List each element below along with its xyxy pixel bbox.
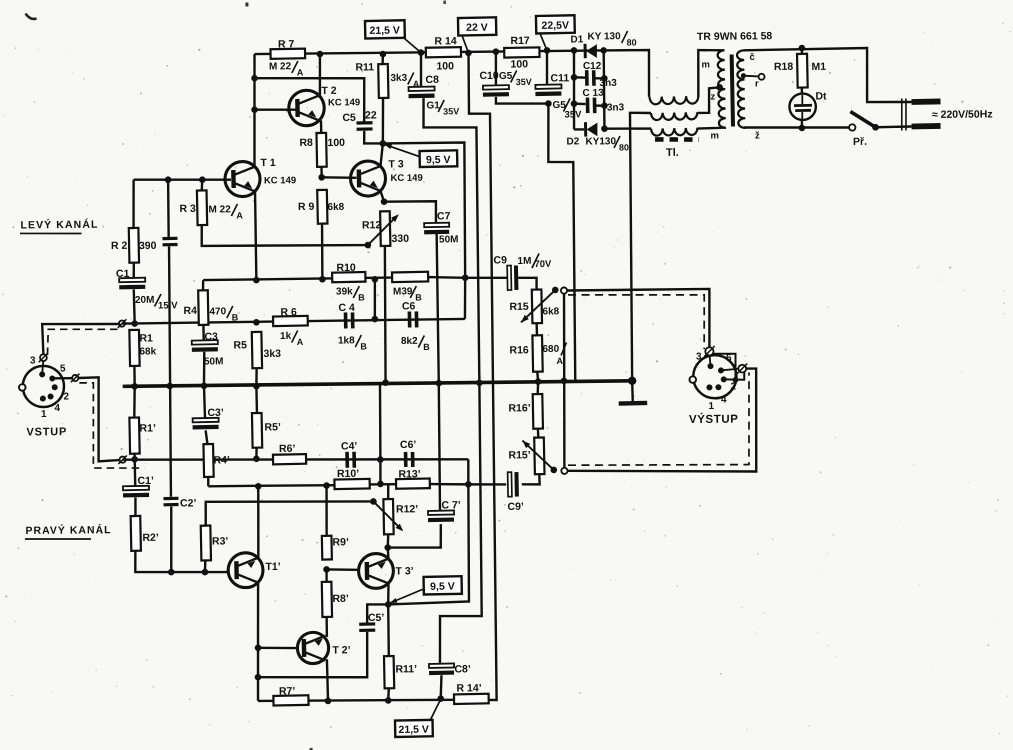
resistor R7 [270,49,305,59]
pointer 9,5V box to node [384,144,419,157]
junction R5 on bus [253,383,260,390]
svg-text:8k2: 8k2 [401,336,418,347]
wire R2 column from base line [132,180,135,228]
wire R12' top to R13' line [387,484,390,499]
trimmer R15' (lower) [534,437,544,474]
svg-text:R8’: R8’ [332,593,349,605]
resistor R11 3k3/A [381,54,384,64]
svg-text:R10’: R10’ [337,468,359,480]
wire mains top [744,48,912,104]
resistor R9' [322,536,332,560]
svg-text:C12: C12 [583,61,602,72]
wire C3 to bus [202,352,205,386]
svg-text:KC 149: KC 149 [264,175,296,186]
transformer secondary winding (right) [737,50,746,128]
svg-text:4: 4 [721,394,727,405]
svg-text:4: 4 [54,403,60,414]
capacitor C6 8k2/B [408,311,412,327]
resistor R16' (lower) [533,394,543,429]
svg-text:M39: M39 [393,286,413,297]
capacitor C2 (base bypass) [167,180,170,237]
svg-text:C4’: C4’ [341,440,358,452]
junction R12 wiper / feedback [365,242,372,249]
svg-text:VSTUP: VSTUP [26,426,67,438]
capacitor C3' (lower) [193,418,219,422]
dashed shield VSTUP upper [47,329,119,355]
wire VSTUP pin5 to right input node [55,377,72,380]
wire bus to R16' [536,382,539,395]
junction shield link on bus [561,378,568,385]
svg-text:R12: R12 [362,219,382,231]
choke Tl. winding row 3 [651,128,698,136]
resistor R3' [201,526,211,561]
wire bus to C3' [204,386,205,419]
svg-text:C 13: C 13 [582,88,604,99]
wire T2' base [258,646,297,649]
wire R4 top / T1 emitter / R10 line [203,276,507,280]
junction C13 left [571,100,578,107]
svg-text:G5: G5 [499,71,513,82]
junction rail/C10 [493,48,500,55]
svg-text:R10: R10 [336,262,356,274]
wire C6 line corner up to C9 line [463,278,466,319]
junction R8'/R9'/T3' base [323,566,330,573]
svg-text:15 V: 15 V [158,300,178,311]
svg-text:R1’: R1’ [139,422,156,434]
trimmer R15 6k8 [532,289,542,323]
svg-text:9,5 V: 9,5 V [426,154,451,166]
wire R9' top to R10' line [325,486,328,537]
capacitor C11 G5/35V [535,84,561,88]
svg-text:A: A [413,79,420,89]
wire R3 bottom feedback line to R12 wiper [202,224,368,247]
svg-text:R5: R5 [233,339,247,351]
resistor R5' [252,413,262,448]
wire R2' to T1' base line [135,550,227,573]
wire output left channel to VYSTUP pin3 [567,289,710,349]
input node terminal (left ch) [119,320,125,326]
resistor R18 M1 [801,48,803,54]
voltage box 22V [458,17,496,35]
junction R15 wiper [552,287,559,294]
capacitor C1 20M/15V [119,278,145,282]
trimmer R12' (lower) [383,499,393,534]
resistor R7' (bottom) [273,695,308,705]
svg-text:ž: ž [755,130,760,141]
svg-text:A: A [297,337,304,347]
svg-text:A: A [236,210,243,220]
svg-text:3k3: 3k3 [390,73,407,84]
svg-text:C5: C5 [342,112,356,124]
svg-text:R 7: R 7 [278,38,295,50]
junction rail/C8/R14 left (21,5V point) [418,49,425,56]
wire C5 line from T1 collector column [255,77,365,122]
capacitor C3 50M [192,340,218,344]
junction rail 22V point [465,50,472,57]
VYSTUP pin 5 [718,367,724,373]
svg-text:C9: C9 [493,254,507,266]
VYSTUP pin 4 [715,384,721,390]
wire T1 collector riser [253,54,255,166]
svg-text:T 2: T 2 [321,85,336,97]
wire T1' emitter down to T2' base [257,582,258,647]
terminal R15' wiper ring [561,468,567,474]
svg-text:z: z [710,91,715,102]
svg-text:č: č [749,52,754,63]
voltage box 9,5V upper [420,150,458,167]
svg-text:KY 130: KY 130 [587,31,621,42]
VSTUP pin 5 [49,375,55,381]
terminal pin5 line [72,375,78,381]
svg-text:r: r [755,78,759,89]
wire choke row1 right up to transformer [698,50,725,97]
wire 22V node jog to R14' column [468,53,496,700]
svg-text:470: 470 [209,306,226,317]
junction C7 column on bus [435,380,442,387]
wire output right channel to VYSTUP pin2 [567,368,758,473]
junction column on R13' line [377,481,384,488]
wire C12 right stub [594,77,604,80]
capacitor C4 1k8/B [344,312,348,328]
svg-text:Př.: Př. [853,136,867,148]
junction output node lower (R13'/C9') [465,481,472,488]
svg-text:TR 9WN 661 58: TR 9WN 661 58 [697,30,773,43]
resistor R6 1k/A [273,316,308,326]
wire R13' to output node [430,484,469,485]
junction base line / C2 column [165,176,172,183]
svg-text:KY130: KY130 [585,136,616,147]
wire R4 to C3 [202,325,205,341]
resistor R9 6k8 [317,190,327,224]
wire bus to R1' [134,386,135,417]
svg-text:C1: C1 [116,268,130,280]
wire T2 collector riser [318,54,321,96]
wire C3' to R4' [206,430,208,444]
capacitor C12 3n3 [585,70,589,86]
wire C7' bottom to R12' junction [388,524,442,548]
svg-text:Tl.: Tl. [666,147,679,159]
junction D2 anode / choke row3 [601,125,608,132]
wire T2 emitter to R8 [320,120,323,133]
svg-text:C10: C10 [479,70,499,82]
svg-text:6k8: 6k8 [542,306,559,317]
VSTUP pin 3 [39,371,45,377]
wire D1 to choke row 1 [604,50,650,97]
dashed shield left channel [568,294,705,351]
svg-text:C9’: C9’ [507,501,524,513]
junction T2' base node [255,644,262,651]
transformer core bars [730,54,735,126]
svg-text:1M: 1M [517,256,531,267]
svg-text:2: 2 [63,391,69,402]
svg-text:R7’: R7’ [279,685,296,697]
svg-text:100: 100 [436,60,454,72]
junction C4'/C6' line column [377,456,384,463]
svg-text:C11: C11 [550,72,569,84]
svg-text:35V: 35V [443,106,459,116]
switch Pr. lever [850,111,875,127]
mains plug blade bottom [912,123,941,129]
svg-text:35V: 35V [516,77,532,87]
VYSTUP pin 2 [721,376,727,382]
resistor R10 39k/B [332,272,365,282]
wire C9 to R15 [518,278,537,290]
resistor R17 [504,47,539,57]
wire R5' top to bus [255,386,258,413]
wire T3 base [322,177,357,178]
svg-text:100: 100 [327,137,345,149]
svg-text:M1: M1 [811,61,826,73]
svg-text:G1: G1 [426,100,440,111]
svg-text:Dt: Dt [815,90,827,102]
junction R5' bottom [253,455,260,462]
wire mains bottom from winding [744,126,849,128]
junction R12' bottom / C7' / T3' emitter [384,544,391,551]
svg-text:9,5 V: 9,5 V [430,581,455,593]
resistor R8 100 [316,133,326,167]
svg-text:C6: C6 [402,300,416,312]
junction base line / R3 [199,176,206,183]
junction R10 right [372,276,379,283]
wire R5 to bus [255,368,258,386]
wire R16' to R15' [537,429,540,438]
junction T1 emitter on line [253,277,260,284]
pointer 9,5V lower box to node [390,589,424,603]
capacitor C8' (lower G1) [429,663,454,667]
wire C1' to R2' [134,497,137,516]
svg-text:C2’: C2’ [180,497,197,509]
junction R16 on bus [535,378,542,385]
svg-text:R11: R11 [355,61,374,73]
svg-text:80: 80 [627,37,637,47]
resistor R2 390 [129,228,139,263]
junction T1' collector on R10' line [255,483,262,490]
svg-text:390: 390 [139,240,157,252]
wire C5' to lower node line [258,632,368,678]
wire choke row2 left down to ground bus end [630,113,654,381]
svg-text:R 14: R 14 [434,35,456,47]
svg-text:B: B [232,312,239,322]
capacitor C7 50M [424,223,449,227]
svg-text:m: m [710,130,719,141]
junction C9 line / output link [462,274,469,281]
svg-text:D2: D2 [566,136,579,147]
junction G5 node under C11 [545,100,552,107]
capacitor C9 1M/70V [507,266,511,291]
svg-text:1k8: 1k8 [338,335,355,346]
wire C2 column through bus to C2' [169,246,172,496]
svg-text:R8: R8 [299,137,313,149]
svg-text:R 3: R 3 [179,203,196,215]
capacitor C5 22 [356,121,372,125]
svg-text:R16: R16 [509,344,529,356]
wire pin5 line continues to R1' node [78,377,119,461]
junction T2 base on T1 collector column [251,106,258,113]
wire T3' collector down to 9,5V node [387,583,390,604]
resistor R13' [396,479,430,489]
svg-text:22: 22 [365,109,377,121]
wire T3' base [327,569,358,570]
capacitor C6' [404,452,408,467]
resistor R2' [131,516,141,551]
ground bus [123,381,632,387]
wire R4' bottom / T1' collector / R10' line [208,485,334,486]
svg-text:R2’: R2’ [142,532,159,544]
wire C8 ground path to bus [423,98,479,384]
svg-text:≈ 220V/50Hz: ≈ 220V/50Hz [932,108,993,121]
VYSTUP pin 1 [706,384,712,390]
junction base line / R3' column [202,569,209,576]
svg-text:3k3: 3k3 [263,348,281,360]
wire R3' to base line [204,560,207,572]
junction R1' node [131,456,138,463]
wire R8 to junction [320,167,323,178]
svg-text:680: 680 [542,344,559,355]
VSTUP notch [19,384,26,391]
junction input node [131,320,138,327]
mains plug blade top [911,99,940,105]
mains plug separator lines [900,98,903,130]
resistor R14' (bottom) [454,694,489,704]
junction R18 top [799,45,806,52]
junction 9,5V node lower [385,601,392,608]
wire R3' top to R12' wiper line [206,500,374,526]
svg-text:3n3: 3n3 [607,102,625,113]
svg-text:6k8: 6k8 [327,202,344,213]
junction rail/R11 [380,51,387,58]
choke Tl. winding row 2 [651,112,698,120]
wire R1' to node [133,454,136,460]
junction C8 ground on bus [476,379,483,386]
wire input line R1/R5/R6 to C4 [122,319,465,324]
diode D2 KY130/80 [574,128,584,131]
R12 wiper arrow [368,217,396,245]
wire lower 9,5V node link to output node [387,484,469,604]
wire node to C1' [133,459,136,486]
svg-text:3: 3 [30,355,36,366]
scan artifact top-left [26,13,37,19]
svg-text:R5’: R5’ [264,421,281,433]
capacitor C10 G5/35V [483,85,509,89]
glow lamp Dt [801,88,803,94]
svg-text:C5’: C5’ [368,612,385,624]
wire column bus to R13' line [379,383,380,484]
svg-text:M 22: M 22 [269,61,292,72]
dashed shield VSTUP lower [79,382,144,468]
svg-text:3: 3 [696,351,702,362]
ground symbol at bus end [628,377,636,385]
resistor R6' [273,454,306,464]
wire T3 collector [380,143,383,166]
transformer center tap junction (z) [716,84,723,91]
wire T2' emitter up to R8' [325,617,328,637]
wire R12' bottom [386,534,389,547]
transistor T3' (mirrored) [358,553,393,588]
wire R11' to rail [387,688,390,700]
svg-text:R17: R17 [510,35,530,47]
wire 9,5V node to output column link [383,142,466,278]
junction T2' collector on rail [325,698,332,705]
wire D2 anode to choke row 3 [604,127,651,130]
voltage box 9,5V lower [424,576,462,594]
R15 wiper arrow [521,290,556,323]
svg-text:C8’: C8’ [454,663,471,675]
svg-text:21,5 V: 21,5 V [398,724,428,736]
junction R15' wiper [550,467,557,474]
capacitor C2' [163,497,178,500]
svg-text:T 2’: T 2’ [332,644,350,656]
svg-text:5: 5 [60,363,66,374]
voltage box 21,5V lower [395,720,433,737]
capacitor C9' (lower coupling) [508,472,512,497]
svg-text:R13’: R13’ [398,468,420,480]
trimmer R12 330 [380,211,390,246]
resistor R11' (lower) [384,656,394,688]
junction T3 emitter / R12 / C7 [381,198,388,205]
svg-text:B: B [415,292,422,302]
VSTUP pin 4 [48,393,54,399]
wire C12 left stub [574,76,585,79]
wire bottom rail 21,5V' [258,699,454,702]
svg-text:T 3: T 3 [388,158,403,170]
junction C2 column on bus [166,383,173,390]
junction R12' wiper / feedback to R3' [370,498,377,505]
wire T3' emitter up to R12' bottom [387,548,390,559]
VYSTUP notch [689,376,696,383]
svg-text:T1’: T1’ [265,561,280,573]
node 21,5V rail (top supply wire) [255,50,604,54]
junction C4/C6 line column [372,316,379,323]
svg-text:21,5 V: 21,5 V [369,25,399,37]
capacitor C13 3n3 [586,98,590,114]
pointer 22,5V box to rail [540,33,547,50]
junction column/C12 right [601,75,608,82]
svg-text:A: A [297,67,304,77]
svg-text:PRAVÝ KANÁL: PRAVÝ KANÁL [25,523,111,537]
wire R2 to C1 [132,263,135,279]
svg-text:T 1: T 1 [260,157,275,169]
wire pin2 up to terminal [724,372,745,379]
resistor R4' (lower) [203,444,213,477]
wire C8 ground continues to C8' below [437,383,482,664]
wire R1 to bus [133,366,136,386]
DIN connector VYSTUP body [693,355,737,399]
svg-text:C 4: C 4 [338,302,355,314]
pointer 21,5V lower box to rail [430,701,440,720]
wire input line R1'/R5'/R6' to C4' [123,456,469,462]
svg-text:T 3’: T 3’ [395,565,413,577]
wire C7 line from T3 emitter [384,201,436,223]
junction R8/R9/T3 base [318,174,325,181]
svg-text:KC 149: KC 149 [328,97,360,108]
wire C11 top column [545,50,548,85]
transistor T1' KC149 (mirrored) [228,553,263,588]
resistor R5 3k3 [252,332,262,368]
resistor R8' [322,582,332,617]
terminal VYSTUP pin2 side [721,369,738,371]
capacitor C7' (lower 50M) [428,510,454,514]
transistor T3 KC149 [350,161,385,196]
svg-text:B: B [423,342,430,352]
resistor R10' [334,479,369,489]
wire R15 to R16 [535,323,538,335]
svg-text:B: B [360,341,367,351]
svg-text:R9’: R9’ [332,536,349,548]
svg-text:R6’: R6’ [279,443,296,455]
VSTUP pin 2 [52,384,58,390]
svg-text:R4: R4 [183,305,197,317]
junction R1 on bus [131,383,138,390]
